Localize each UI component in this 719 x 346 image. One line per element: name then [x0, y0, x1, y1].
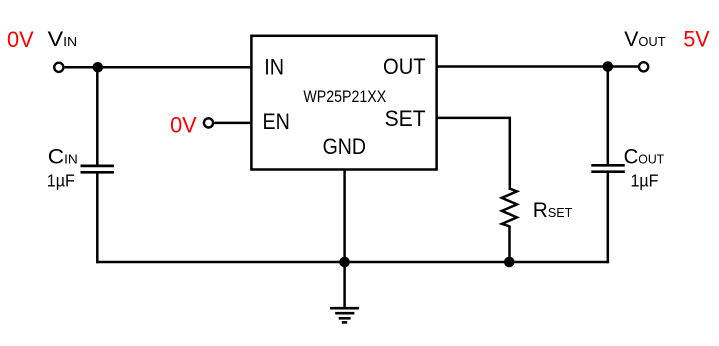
wire RSET down to ground rail — [508, 226, 511, 263]
svg-text:IN: IN — [264, 55, 284, 80]
terminal VIN — [54, 63, 63, 72]
svg-text:WP25P21XX: WP25P21XX — [303, 87, 386, 106]
junction GND rail node — [339, 257, 350, 268]
junction RSET ground node — [504, 257, 515, 268]
wire COUT down to ground rail — [607, 172, 610, 263]
wire CIN down to ground rail — [96, 173, 99, 263]
wire SET pin right and down to RSET — [436, 118, 510, 190]
capacitor COUT — [591, 165, 625, 171]
svg-text:0V: 0V — [7, 27, 34, 52]
junction VOUT node — [603, 61, 614, 72]
wire EN terminal to EN pin — [214, 122, 252, 125]
wire ground rail (bottom) — [96, 261, 609, 264]
svg-text:1µF: 1µF — [631, 171, 659, 191]
svg-text:OUT: OUT — [383, 54, 426, 79]
wire OUT pin to VOUT terminal — [436, 65, 639, 68]
junction VIN node — [93, 62, 104, 73]
IC U1 WP25P21XX body — [251, 36, 436, 170]
svg-text:0V: 0V — [170, 113, 197, 138]
svg-text:1µF: 1µF — [47, 170, 75, 190]
svg-text:EN: EN — [263, 109, 290, 134]
svg-text:SET: SET — [385, 106, 426, 131]
capacitor CIN — [81, 166, 115, 172]
wire VIN terminal to IN pin — [65, 66, 252, 69]
svg-text:GND: GND — [323, 134, 366, 159]
ground — [330, 308, 359, 322]
wire VIN node down to CIN — [96, 67, 99, 165]
svg-text:5V: 5V — [683, 27, 709, 52]
wire GND pin down to ground symbol — [343, 170, 346, 309]
resistor RSET — [502, 189, 517, 227]
wire VOUT node down to COUT — [607, 67, 610, 165]
terminal EN — [204, 118, 213, 127]
terminal VOUT — [639, 62, 648, 71]
